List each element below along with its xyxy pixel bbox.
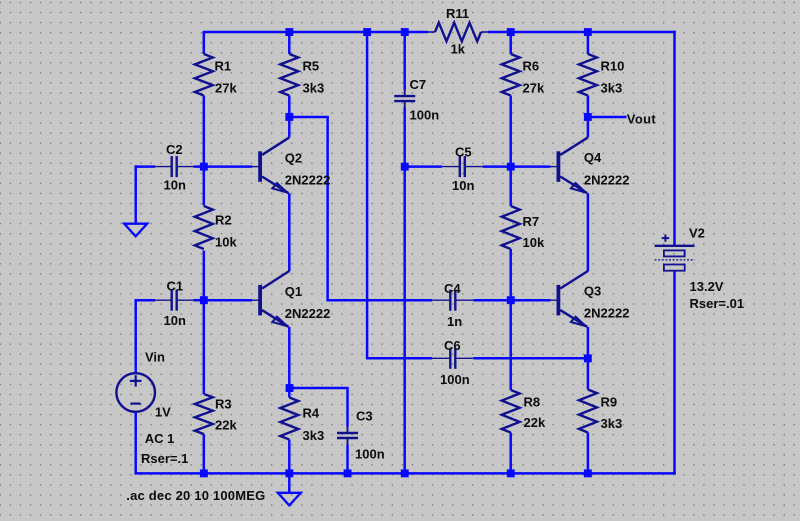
svg-text:1n: 1n	[447, 314, 462, 329]
svg-text:10k: 10k	[215, 234, 237, 249]
wire Q4 base	[511, 165, 551, 168]
svg-text:R1: R1	[215, 58, 232, 73]
junction node base row Q2	[200, 163, 208, 171]
svg-text:100n: 100n	[355, 446, 385, 461]
wire R4 bottom lead	[288, 440, 291, 474]
resistor R7	[502, 206, 520, 249]
svg-text:Q2: Q2	[285, 150, 302, 165]
wire Q3 base	[511, 299, 551, 302]
transistor Q2	[251, 166, 259, 168]
junction node R10 top	[584, 28, 592, 36]
junction node Q1 emitter	[286, 384, 294, 392]
transistor Q1	[251, 299, 259, 301]
wire R8 bottom lead	[509, 433, 512, 474]
wire R9 top lead	[587, 358, 590, 389]
wire R9 bottom lead	[587, 433, 590, 474]
wire R5 bottom to feedback corner	[289, 116, 329, 119]
svg-text:3k3: 3k3	[601, 416, 623, 431]
svg-text:10n: 10n	[452, 178, 474, 193]
capacitor C2	[154, 166, 172, 168]
junction node gnd rail R9	[584, 469, 592, 477]
wire bottom rail	[135, 472, 676, 475]
capacitor C3	[347, 426, 349, 433]
svg-text:Rser=.01: Rser=.01	[690, 296, 745, 311]
junction node C4 right	[507, 296, 515, 304]
svg-text:Q3: Q3	[584, 283, 601, 298]
svg-text:22k: 22k	[215, 418, 237, 433]
svg-text:3k3: 3k3	[601, 81, 623, 96]
junction node Q3 emitter	[584, 354, 592, 362]
svg-text:3k3: 3k3	[303, 81, 325, 96]
wire C7 top lead	[403, 32, 406, 90]
junction node gnd rail C7	[401, 469, 409, 477]
junction node fb2 top	[363, 28, 371, 36]
transistor Q4	[549, 166, 557, 168]
svg-text:R8: R8	[524, 395, 541, 410]
resistor R8	[502, 390, 520, 433]
svg-text:R11: R11	[446, 6, 469, 21]
wire left rail R1-R2	[203, 96, 206, 206]
wire R10 bottom lead	[587, 96, 590, 118]
junction node base row Q1	[200, 296, 208, 304]
svg-text:2N2222: 2N2222	[285, 173, 331, 188]
svg-text:.ac dec 20 10 100MEG: .ac dec 20 10 100MEG	[126, 488, 265, 503]
resistor R10	[579, 54, 597, 96]
svg-text:Vout: Vout	[627, 112, 657, 127]
svg-text:100n: 100n	[410, 107, 440, 122]
junction node gnd rail C3	[344, 469, 352, 477]
svg-text:C5: C5	[455, 145, 472, 160]
svg-text:27k: 27k	[523, 81, 545, 96]
svg-text:R7: R7	[523, 214, 540, 229]
wire top rail right segment	[488, 31, 676, 34]
wire R5 top lead	[288, 32, 291, 54]
wire C1 row right	[194, 299, 204, 302]
wire top rail left segment	[203, 31, 428, 34]
svg-text:10k: 10k	[523, 235, 545, 250]
svg-text:C6: C6	[444, 338, 461, 353]
wire R10 top lead	[587, 32, 590, 54]
wire Q2 emitter to Q1 collector	[288, 193, 291, 271]
wire Q2 base	[204, 165, 252, 168]
svg-text:1k: 1k	[451, 42, 466, 57]
wire R6 bottom lead	[509, 96, 512, 167]
svg-text:R9: R9	[601, 395, 618, 410]
junction node Vout junction	[584, 113, 592, 121]
resistor R6	[502, 54, 520, 96]
wire Q4 emitter to Q3 collector	[587, 193, 590, 271]
svg-text:2N2222: 2N2222	[584, 306, 630, 321]
svg-text:C2: C2	[166, 142, 183, 157]
svg-text:R10: R10	[601, 58, 625, 73]
junction node gnd rail R8	[507, 469, 515, 477]
capacitor C4	[432, 299, 450, 301]
wire C5 row right	[483, 165, 511, 168]
svg-text:1V: 1V	[155, 405, 171, 420]
junction node C5 left	[401, 163, 409, 171]
svg-text:Q1: Q1	[285, 284, 302, 299]
wire left rail R2-R3	[203, 251, 206, 395]
svg-text:V2: V2	[689, 226, 705, 241]
svg-text:R6: R6	[523, 58, 540, 73]
svg-text:C1: C1	[167, 279, 184, 294]
svg-text:22k: 22k	[524, 415, 546, 430]
wire feedback 2 to C6	[366, 357, 432, 360]
resistor R5	[280, 54, 298, 96]
resistor R4	[280, 398, 298, 440]
wire Q2 collector	[288, 117, 291, 137]
junction node gnd rail R4	[285, 469, 293, 477]
wire left rail R3-bottom	[203, 434, 206, 473]
wire R6 top lead	[509, 32, 512, 54]
svg-text:C4: C4	[444, 281, 461, 296]
junction node gnd rail R3	[200, 469, 208, 477]
svg-text:Q4: Q4	[584, 150, 602, 165]
wire R7 top lead	[509, 167, 512, 206]
svg-text:C3: C3	[356, 408, 373, 423]
wire C2 row left	[135, 165, 156, 168]
capacitor C5	[442, 166, 460, 168]
capacitor C7	[404, 89, 406, 96]
wire R8 top lead	[509, 300, 512, 390]
svg-text:Rser=.1: Rser=.1	[141, 451, 188, 466]
wire R4 top lead	[288, 388, 291, 398]
wire C4 row right	[473, 299, 510, 302]
junction node R6 top	[507, 28, 515, 36]
svg-text:13.2V: 13.2V	[690, 279, 724, 294]
wire Q1 base	[204, 299, 252, 302]
junction node C7 top	[401, 28, 409, 36]
wire right rail lower	[673, 271, 676, 475]
wire C1 to Vin source	[134, 299, 137, 373]
junction node C5 right	[507, 163, 515, 171]
wire C1 row left	[135, 299, 156, 302]
wire right rail upper	[673, 31, 676, 245]
wire left rail upper	[203, 32, 206, 54]
wire Vin to bottom rail	[134, 412, 137, 475]
wire C5 row left	[405, 165, 442, 168]
svg-text:R2: R2	[215, 213, 232, 228]
wire Vout stub	[588, 116, 627, 119]
svg-text:10n: 10n	[164, 177, 186, 192]
wire feedback 1 vertical	[326, 117, 329, 300]
wire ground stem below R4	[288, 473, 291, 492]
svg-text:2N2222: 2N2222	[584, 172, 630, 187]
wire C7 bottom lead	[403, 108, 406, 167]
resistor R1	[195, 54, 213, 96]
resistor R9	[579, 390, 597, 433]
svg-text:27k: 27k	[215, 81, 237, 96]
svg-text:10n: 10n	[164, 313, 186, 328]
resistor R3	[195, 394, 213, 434]
ground below R4	[278, 493, 301, 506]
wire Q4 collector	[587, 117, 590, 137]
svg-text:3k3: 3k3	[303, 428, 325, 443]
voltage source Vin	[116, 373, 155, 412]
voltage source V2 battery	[655, 245, 695, 247]
wire C6 right to Q3 emitter	[473, 357, 588, 360]
wire feedback 1 to C4	[326, 299, 432, 302]
wire Q3 emitter down	[587, 327, 590, 358]
capacitor C6	[432, 357, 450, 359]
svg-text:R3: R3	[215, 396, 232, 411]
wire C2 row right	[194, 165, 204, 168]
wire R5 bottom lead	[288, 96, 291, 118]
svg-text:Vin: Vin	[145, 349, 165, 364]
svg-text:2N2222: 2N2222	[285, 306, 331, 321]
svg-text:R5: R5	[303, 58, 320, 73]
svg-text:R4: R4	[303, 406, 320, 421]
svg-text:C7: C7	[410, 77, 427, 92]
wire feedback 2 vertical	[366, 32, 369, 358]
wire node Q1e to C3	[289, 387, 348, 390]
wire C3 bottom lead	[346, 445, 349, 474]
wire C3 top lead	[346, 388, 349, 427]
svg-text:100n: 100n	[440, 372, 470, 387]
wire C2 to ground	[134, 165, 137, 223]
wire C7 branch to bottom rail	[403, 167, 406, 474]
capacitor C1	[154, 299, 172, 301]
resistor R2	[195, 206, 213, 249]
transistor Q3	[549, 299, 557, 301]
wire R7 bottom lead	[509, 249, 512, 300]
wire Q1 emitter down	[288, 327, 291, 388]
junction node R5 bottom	[285, 113, 293, 121]
junction node R5 top	[285, 28, 293, 36]
resistor R11	[428, 31, 436, 33]
ground under C2	[124, 224, 147, 237]
svg-text:AC 1: AC 1	[145, 431, 175, 446]
